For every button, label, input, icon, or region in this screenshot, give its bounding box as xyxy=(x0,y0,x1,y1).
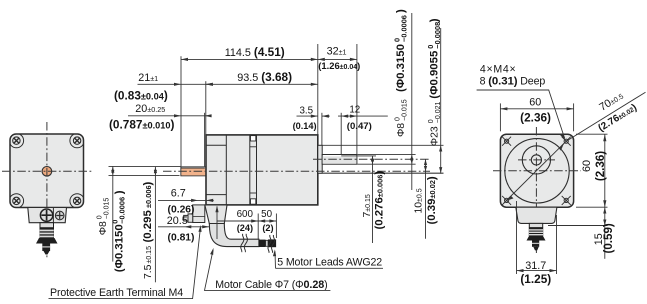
svg-text:Φ8: Φ8 xyxy=(98,221,109,235)
terminal block xyxy=(28,208,67,223)
corner screws xyxy=(13,137,81,205)
phi23 ext lines xyxy=(322,144,443,146)
svg-text:−0.0006: −0.0006 xyxy=(400,15,409,42)
rear shaft phi8 xyxy=(322,155,357,165)
front shaft (orange) xyxy=(181,167,207,176)
svg-text:±0.006: ±0.006 xyxy=(144,185,153,208)
lead transition xyxy=(259,240,266,247)
svg-text:−0.0006: −0.0006 xyxy=(118,197,127,224)
svg-text:60: 60 xyxy=(529,96,541,108)
svg-text:Φ8: Φ8 xyxy=(396,123,407,137)
svg-text:3.5: 3.5 xyxy=(299,105,313,116)
svg-text:8 (0.31) Deep: 8 (0.31) Deep xyxy=(480,75,546,87)
diagonal dim 70 xyxy=(566,92,645,141)
body xyxy=(206,135,318,205)
dim 32+-1 xyxy=(318,58,357,60)
svg-text:(2.36): (2.36) xyxy=(594,151,607,181)
dim 21+-1 xyxy=(138,83,213,85)
dim 114.5 xyxy=(181,58,318,60)
rear shaft flat xyxy=(341,155,357,157)
svg-text:21±1: 21±1 xyxy=(138,72,158,84)
dim line phi8 rear xyxy=(411,13,413,190)
svg-text:(0.787±0.010): (0.787±0.010) xyxy=(109,118,175,132)
cable break marks xyxy=(241,234,248,252)
svg-text:114.5 (4.51): 114.5 (4.51) xyxy=(225,45,285,59)
svg-text:(0.295: (0.295 xyxy=(142,210,154,243)
dim line phi8 xyxy=(112,166,114,261)
svg-text:(0.47): (0.47) xyxy=(347,121,372,132)
center crosshair xyxy=(46,122,48,258)
svg-text:60: 60 xyxy=(581,160,593,172)
ext line shaft tip xyxy=(180,56,182,166)
svg-text:4×M4×: 4×M4× xyxy=(480,64,516,76)
clamp notch bottom xyxy=(251,199,256,204)
text (phi0.3150 -0.0006) xyxy=(111,190,127,272)
svg-text:(0.39±0.02): (0.39±0.02) xyxy=(426,176,438,224)
text phi8 -0.015 xyxy=(96,198,110,236)
svg-text:50: 50 xyxy=(261,209,272,220)
ext/term lines xyxy=(216,207,218,240)
dim 3.5 xyxy=(297,115,318,117)
svg-text:(2): (2) xyxy=(262,223,273,233)
svg-text:(Φ0.9055: (Φ0.9055 xyxy=(429,50,441,99)
svg-text:(0.83±0.04): (0.83±0.04) xyxy=(114,89,168,103)
svg-text:(24): (24) xyxy=(237,223,253,233)
dim line 600/50 xyxy=(217,220,276,222)
dim line 7.5 xyxy=(154,167,156,282)
main axis centerline xyxy=(163,170,430,172)
svg-text:12: 12 xyxy=(349,105,360,116)
leads plug xyxy=(268,239,276,247)
shaft flat line xyxy=(181,167,205,169)
dim line phi23 xyxy=(440,28,442,173)
svg-text:(1.25): (1.25) xyxy=(520,272,551,286)
dim 6.7 xyxy=(158,199,214,201)
internal vertical lines xyxy=(225,135,227,205)
dim 15 right xyxy=(548,225,608,227)
crosshair xyxy=(535,127,537,253)
rear gland xyxy=(529,223,542,227)
text 7+-0.15 column xyxy=(362,194,373,217)
svg-text:−0.021: −0.021 xyxy=(435,101,442,123)
clamp notch top xyxy=(251,136,256,141)
svg-text:5 Motor Leads AWG22: 5 Motor Leads AWG22 xyxy=(277,256,382,268)
svg-text:(2.36): (2.36) xyxy=(520,110,551,124)
svg-text:20±0.25: 20±0.25 xyxy=(135,103,165,115)
dim 60 top xyxy=(499,103,501,131)
svg-text:−0.0008: −0.0008 xyxy=(433,22,442,49)
svg-text:32±1: 32±1 xyxy=(327,46,347,58)
svg-text:6.7: 6.7 xyxy=(171,188,186,200)
ext lines from front shaft xyxy=(109,165,181,167)
svg-text:): ) xyxy=(395,9,407,13)
svg-text:(0.276±0.006): (0.276±0.006) xyxy=(374,171,386,230)
text 7.5 +-0.15 (0.295+-0.006) xyxy=(142,182,154,280)
ext line rear shaft end xyxy=(356,44,358,154)
svg-text:31.7: 31.7 xyxy=(525,260,546,272)
svg-text:): ) xyxy=(429,18,441,22)
corner ear arcs xyxy=(9,133,84,208)
svg-text:Φ23: Φ23 xyxy=(430,126,441,146)
text phi23 column (rotated) xyxy=(426,18,442,146)
rear axis centerline xyxy=(313,158,430,160)
svg-text:(0.81): (0.81) xyxy=(168,233,195,244)
terminal block side xyxy=(205,205,227,224)
svg-text:−0.015: −0.015 xyxy=(402,99,409,121)
svg-text:600: 600 xyxy=(237,209,254,220)
dim 20.5 xyxy=(158,226,209,228)
flat ext line xyxy=(357,155,376,157)
svg-text:): ) xyxy=(142,182,154,186)
svg-text:0: 0 xyxy=(96,215,103,219)
cable gland front xyxy=(40,223,54,228)
dim line 10 offset xyxy=(425,159,427,238)
dim 31.7 bottom xyxy=(516,201,518,274)
earth screw side bump xyxy=(188,214,193,222)
cable xyxy=(209,224,259,247)
dim 20+-0.25 xyxy=(128,115,211,117)
small screw xyxy=(55,211,64,220)
ext line body front face xyxy=(205,81,207,134)
svg-text:7.5: 7.5 xyxy=(143,264,154,279)
svg-text:20.5: 20.5 xyxy=(167,215,188,227)
svg-text:(Φ0.3150: (Φ0.3150 xyxy=(395,44,407,92)
ext line flat start xyxy=(340,113,342,154)
text 10+-0.5 column xyxy=(413,188,424,213)
svg-text:0: 0 xyxy=(394,117,401,121)
svg-text:0: 0 xyxy=(428,119,435,123)
rear terminal block xyxy=(516,207,557,223)
svg-text:(0.26): (0.26) xyxy=(168,205,195,216)
earth screw big xyxy=(40,209,52,221)
pilot circle phi23 xyxy=(522,146,550,174)
dim 93.5 xyxy=(206,83,318,85)
dim 60 right xyxy=(576,133,608,135)
diagonal 45 line through holes xyxy=(504,141,567,203)
shaft circle phi8 xyxy=(531,155,541,165)
svg-text:(0.14): (0.14) xyxy=(293,121,317,131)
ext line boss face xyxy=(321,113,323,145)
svg-text:): ) xyxy=(113,190,125,194)
ext line shaft usable end xyxy=(204,113,206,167)
svg-text:−0.015: −0.015 xyxy=(104,198,111,220)
svg-text:Motor Cable Φ7 (Φ0.28): Motor Cable Φ7 (Φ0.28) xyxy=(215,279,327,291)
text phi8 column (rotated) xyxy=(392,9,408,137)
dim 12 xyxy=(338,115,388,117)
svg-text:93.5 (3.68): 93.5 (3.68) xyxy=(237,70,292,84)
front shaft circle xyxy=(42,167,52,177)
svg-text:(Φ0.3150: (Φ0.3150 xyxy=(113,224,125,272)
big circle xyxy=(505,139,569,203)
svg-text:±0.15: ±0.15 xyxy=(146,246,153,264)
rear body square xyxy=(500,134,573,207)
internal horizontals (front section) xyxy=(206,144,226,146)
corner holes with X marks xyxy=(502,137,571,205)
ext line body rear face xyxy=(317,44,319,135)
svg-text:Protective Earth Terminal M4: Protective Earth Terminal M4 xyxy=(50,287,183,299)
rear boss phi23 xyxy=(318,145,322,173)
phi8 ext lines xyxy=(357,153,415,155)
dim line 7 flat xyxy=(372,156,374,243)
svg-text:(0.59): (0.59) xyxy=(602,223,615,253)
